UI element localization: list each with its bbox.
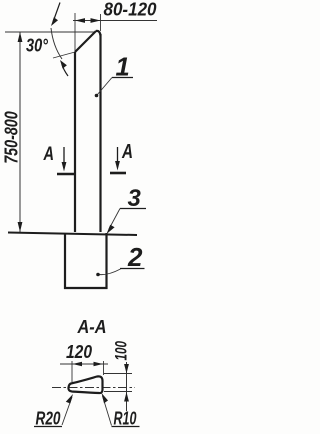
dimension 120: extension right: [103, 361, 105, 375]
svg-text:A: A: [121, 140, 133, 163]
underline of label 3: [120, 208, 146, 210]
dimension 100 line: [126, 362, 128, 411]
leader dot of label 1: [95, 94, 99, 98]
arrowhead left of 120: [73, 362, 83, 366]
leader of label 3: [109, 209, 120, 230]
svg-text:2: 2: [127, 242, 143, 272]
arrowhead right of 80-120: [91, 18, 101, 23]
leader of R20: [62, 397, 72, 425]
foundation block right edge: [105, 233, 107, 289]
leader of R10: [103, 396, 112, 426]
svg-text:30°: 30°: [26, 36, 49, 56]
leader arrowhead of R20: [66, 394, 73, 404]
dimension 120: extension left: [71, 361, 73, 382]
svg-text:750-800: 750-800: [1, 111, 21, 164]
underline of label 2: [120, 268, 145, 270]
dimension 100: extension bottom: [104, 391, 132, 393]
arrowhead up of 750-800: [18, 32, 23, 42]
leader of label 1: [97, 78, 112, 96]
section mark A left: arrow: [63, 147, 65, 168]
section mark A left: thick dash: [57, 173, 74, 176]
svg-text:A: A: [43, 143, 54, 165]
post top rounded corner: [96, 31, 101, 36]
underline of label 1: [112, 77, 133, 79]
leader arrow upper of 30 deg: [53, 3, 60, 23]
dimension 750-800 vertical line: [19, 32, 21, 232]
svg-text:120: 120: [66, 342, 92, 362]
post body outline: chamfer: [75, 31, 96, 52]
arrowhead right of 120: [94, 362, 104, 366]
post left edge: [74, 52, 76, 232]
section mark A right: arrow: [117, 147, 119, 167]
underline of R20: [34, 426, 62, 428]
leader of label 2: [100, 269, 121, 275]
arrowhead upper of 100: [124, 364, 129, 374]
dimension 120 line: [60, 363, 108, 365]
foundation block bottom edge: [64, 287, 108, 289]
arrowhead lower of 100: [124, 392, 129, 402]
wire: top extension line for 750-800 dimension: [5, 31, 96, 33]
chamfer reference line: [53, 52, 75, 58]
section centerline: [52, 387, 135, 389]
arrowhead left of 80-120: [75, 18, 85, 23]
underline of R10: [112, 426, 140, 428]
svg-text:A-A: A-A: [77, 317, 107, 337]
svg-text:R20: R20: [36, 408, 62, 429]
dimension 100: extension top: [104, 373, 132, 375]
extension line right of 80-120: [100, 14, 102, 31]
foundation block left edge: [64, 233, 66, 289]
arrowhead down of 750-800: [18, 222, 23, 232]
svg-text:80-120: 80-120: [104, 0, 158, 20]
dimension 80-120 line: [73, 20, 157, 22]
svg-text:R10: R10: [114, 408, 137, 429]
section mark A right: thick dash: [110, 172, 126, 175]
leader arrowhead of R10: [102, 393, 109, 403]
svg-text:100: 100: [112, 340, 130, 360]
angle arc of 30 deg: [51, 28, 62, 59]
leader arrowhead of label 3: [107, 225, 115, 234]
extension line left of 80-120: [74, 13, 76, 51]
post right edge: [99, 34, 101, 232]
leader arrow lower of 30 deg: [62, 64, 68, 76]
ground line: [8, 233, 137, 236]
section profile outline: [68, 376, 102, 393]
leader dot of label 2: [96, 273, 100, 277]
